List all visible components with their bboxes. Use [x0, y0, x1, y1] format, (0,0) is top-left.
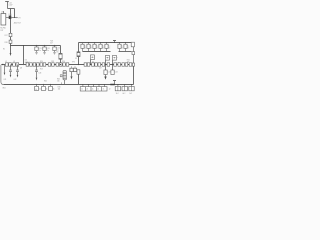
chain box [52, 63, 55, 66]
chain box [63, 63, 66, 66]
connector row block [80, 87, 107, 91]
bus left arrow [1, 64, 3, 66]
svg-text:R17: R17 [5, 35, 8, 37]
svg-text:L2: L2 [5, 61, 7, 63]
enclosure left edge [1, 65, 4, 85]
arrow under relay [71, 72, 73, 80]
svg-text:1k 2: 1k 2 [116, 93, 119, 95]
label C35 [108, 45, 110, 49]
label below bus left of row [58, 86, 61, 90]
junction dot [55, 64, 56, 65]
label below U1 [0, 28, 5, 32]
svg-text:.1u: .1u [39, 50, 41, 52]
connector row dots [82, 84, 105, 85]
chain box [102, 63, 105, 66]
cap C22 drop [43, 45, 46, 54]
svg-text:1k: 1k [53, 88, 55, 90]
junction dot flag3 [112, 64, 113, 65]
svg-text:1k: 1k [46, 88, 48, 90]
label C37 [127, 45, 129, 49]
cap bank C33 [93, 42, 96, 52]
svg-text:.1u: .1u [47, 50, 49, 52]
label E [3, 49, 5, 51]
bottom resistor row box1 [35, 84, 39, 91]
svg-text:C42: C42 [13, 79, 16, 81]
label flag1 [92, 61, 95, 63]
label drop D [38, 73, 41, 75]
battery BT1 [63, 71, 66, 80]
junction dot [101, 64, 102, 65]
resistor top right corner [131, 42, 134, 47]
chain box [66, 63, 69, 66]
wire top horizontal [8, 8, 15, 10]
vertical VCC feed [78, 43, 80, 65]
svg-text:1k: 1k [92, 88, 94, 90]
svg-text:10k: 10k [127, 62, 130, 64]
label R2 [5, 35, 8, 37]
cap bank C34 [99, 42, 102, 52]
label flag3 [116, 62, 119, 64]
chain box [95, 63, 98, 66]
svg-text:E1: E1 [3, 49, 5, 51]
bus chain right section box [84, 63, 87, 66]
cap drop A [4, 65, 6, 76]
svg-text:1k: 1k [39, 88, 41, 90]
wire BT1 to ground bus [64, 80, 66, 85]
svg-text:10k: 10k [57, 81, 60, 83]
chain box [114, 63, 117, 66]
ferrite FB2 [9, 63, 12, 66]
junction dot F2 ground [78, 84, 79, 85]
ferrite FB1 [5, 63, 8, 66]
fuse F1 [77, 52, 80, 57]
chain box [33, 63, 36, 66]
chain box [98, 63, 101, 66]
chain box [92, 63, 95, 66]
power symbol 3V3 [113, 41, 116, 43]
cap bank C31 [81, 43, 84, 52]
label cap flag3 [115, 72, 118, 74]
stub R42 [61, 82, 63, 84]
wire vertical to net [14, 9, 16, 18]
junction dot [14, 17, 15, 18]
cap drop D [35, 64, 38, 81]
chain box [48, 63, 51, 66]
cross mark [117, 57, 118, 59]
main bus wire [1, 64, 133, 66]
label C31 [84, 45, 86, 49]
svg-text:R24: R24 [40, 61, 43, 63]
wire corner right [133, 47, 135, 52]
label GND corner [2, 87, 5, 89]
power symbol VCC top-left [5, 2, 9, 9]
wire Q1 to net arrow [11, 17, 17, 19]
chain box [30, 63, 33, 66]
svg-text:16: 16 [84, 47, 86, 49]
inductor L1 [59, 53, 62, 59]
label above ground bus [44, 78, 60, 82]
cap drop B [9, 65, 12, 78]
chain box [107, 63, 110, 66]
svg-text:C41: C41 [3, 79, 6, 81]
label U1 [1, 11, 5, 14]
svg-text:16: 16 [102, 47, 104, 49]
bus end box [132, 63, 134, 66]
wire chain vertical left [10, 19, 12, 53]
labels above bus mid [40, 61, 65, 63]
svg-text:D6: D6 [56, 52, 58, 54]
chain box [122, 63, 125, 66]
svg-text:4k 2: 4k 2 [122, 93, 125, 95]
junction dot flag1 [90, 64, 91, 65]
label C32 [90, 45, 92, 49]
svg-text:10: 10 [35, 89, 37, 91]
svg-text:J2: J2 [109, 89, 111, 91]
fuse lower F2 [77, 70, 80, 74]
junction dot barrel ground [64, 84, 65, 85]
svg-text:1k: 1k [103, 88, 105, 90]
chain box [56, 63, 59, 66]
label C23 [57, 48, 60, 52]
net flag 3 [113, 55, 117, 64]
svg-text:C51: C51 [108, 72, 111, 74]
label C33 [96, 45, 98, 49]
transistor Q1 [9, 16, 11, 19]
bottom row box3 [49, 84, 53, 91]
chain box [43, 63, 46, 66]
svg-text:16: 16 [127, 47, 129, 49]
junction dot power bottom [114, 84, 115, 85]
label Q1 [9, 14, 12, 16]
label under wire [14, 22, 22, 25]
chain box [87, 63, 90, 66]
junction dot [23, 64, 24, 65]
chain box [129, 63, 132, 66]
relay box pair [70, 66, 77, 71]
cap below flag3 [111, 65, 114, 75]
chain box [40, 63, 43, 66]
chain box [125, 63, 128, 66]
svg-text:R16: R16 [9, 14, 12, 16]
wire to bus right end [133, 55, 135, 63]
label D5 two lines [25, 60, 30, 64]
cap below flag2 [104, 65, 107, 80]
junction dot power [114, 42, 115, 43]
svg-text:16: 16 [121, 47, 123, 49]
label R3 [5, 42, 8, 44]
svg-text:F1: F1 [75, 58, 77, 60]
chain box [37, 63, 40, 66]
svg-text:1k: 1k [81, 88, 83, 90]
label below right bus [99, 68, 102, 70]
svg-text:0.1uF: 0.1uF [9, 5, 13, 7]
wire IC pin to Q1 [6, 17, 9, 19]
svg-text:1k 2: 1k 2 [129, 93, 132, 95]
cap bank ground rail left [83, 51, 111, 53]
label TP3 [72, 62, 75, 64]
chain box [59, 63, 62, 66]
resistor chain box [16, 63, 19, 66]
bottom row box11 [129, 84, 134, 91]
connector row labels [81, 88, 104, 90]
svg-text:R41: R41 [44, 81, 47, 83]
resistor R2 on chain [9, 33, 12, 36]
junction dot [121, 64, 122, 65]
svg-text:2k: 2k [86, 88, 88, 90]
cap bank ground rail right [119, 51, 132, 53]
cap C23 drop [53, 45, 56, 54]
svg-text:16: 16 [108, 47, 110, 49]
label below bus [20, 66, 43, 70]
power flag bottom [113, 81, 116, 85]
ground arrow left chain [10, 53, 12, 56]
net arrow out [17, 17, 18, 18]
svg-text:R25: R25 [51, 61, 54, 63]
wire F2 to ground bus [78, 74, 80, 84]
bottom row box9 [115, 84, 120, 91]
labels under drops [3, 79, 16, 81]
net flag 2 [106, 55, 110, 64]
ground bus bottom [4, 84, 134, 86]
net label [18, 17, 21, 19]
wire L1 to bus [60, 59, 62, 64]
small box right edge [132, 52, 135, 55]
svg-text:GN1: GN1 [2, 87, 5, 89]
svg-text:AUD OUT: AUD OUT [14, 22, 22, 25]
svg-text:4k7: 4k7 [99, 68, 102, 70]
cap C21 drop [35, 45, 38, 54]
junction dot [60, 64, 61, 65]
junction dot rail [10, 45, 11, 46]
wire vertical mid-left [23, 46, 25, 65]
junction dot [78, 64, 79, 65]
junction dot flag2 [105, 64, 106, 65]
wire right edge down [133, 66, 135, 84]
cap bank C35 [105, 42, 108, 52]
label above mid rail [50, 41, 53, 45]
svg-text:2k: 2k [97, 88, 99, 90]
label C21 [39, 48, 42, 52]
labels above bus left [5, 61, 15, 63]
net flag 1 [91, 55, 95, 65]
svg-text:C43: C43 [38, 73, 41, 75]
chain box [118, 63, 121, 66]
mid rail wire [11, 45, 61, 47]
label cap flag2 [108, 72, 111, 74]
svg-text:3V3: 3V3 [40, 69, 43, 71]
svg-text:4k7: 4k7 [50, 43, 53, 45]
label above right bus [127, 60, 130, 64]
cap bank C32 [87, 42, 90, 52]
svg-text:C52: C52 [115, 72, 118, 74]
svg-text:10k: 10k [58, 89, 61, 91]
label L1 [56, 52, 58, 54]
resistor R3 on chain [9, 40, 12, 43]
resistor chain box [13, 63, 16, 66]
svg-text:R18: R18 [5, 42, 8, 44]
svg-text:+: + [117, 57, 118, 59]
label C14 0.1uF [9, 3, 13, 7]
junction dot [47, 64, 48, 65]
top right rail [79, 42, 132, 44]
small mark above bus [60, 75, 62, 77]
svg-text:R26: R26 [62, 61, 65, 63]
cap bank C36 [118, 42, 121, 52]
label C34 [102, 45, 104, 49]
label J2 [109, 89, 111, 91]
pad bar on bus [110, 84, 114, 86]
bottom row box2 [42, 84, 46, 91]
connector row stubs [83, 85, 105, 87]
wire vertical through Q1 [10, 9, 12, 16]
svg-text:16: 16 [96, 47, 98, 49]
bottom row box10 [122, 84, 127, 91]
labels bottom row [35, 88, 132, 95]
svg-text:L3: L3 [13, 61, 15, 63]
bus chain boxes middle [26, 63, 29, 66]
svg-text:TP3: TP3 [72, 62, 75, 64]
label C22 [47, 48, 50, 52]
cap drop C [16, 65, 19, 78]
cap bank C37 [124, 42, 127, 52]
wire corner down to L1 [60, 46, 62, 54]
label F1 [75, 58, 77, 60]
IC U1 [1, 11, 6, 25]
junction dot rail T [23, 45, 24, 46]
label C36 [121, 45, 123, 49]
junction dot [128, 64, 129, 65]
svg-text:16: 16 [90, 47, 92, 49]
